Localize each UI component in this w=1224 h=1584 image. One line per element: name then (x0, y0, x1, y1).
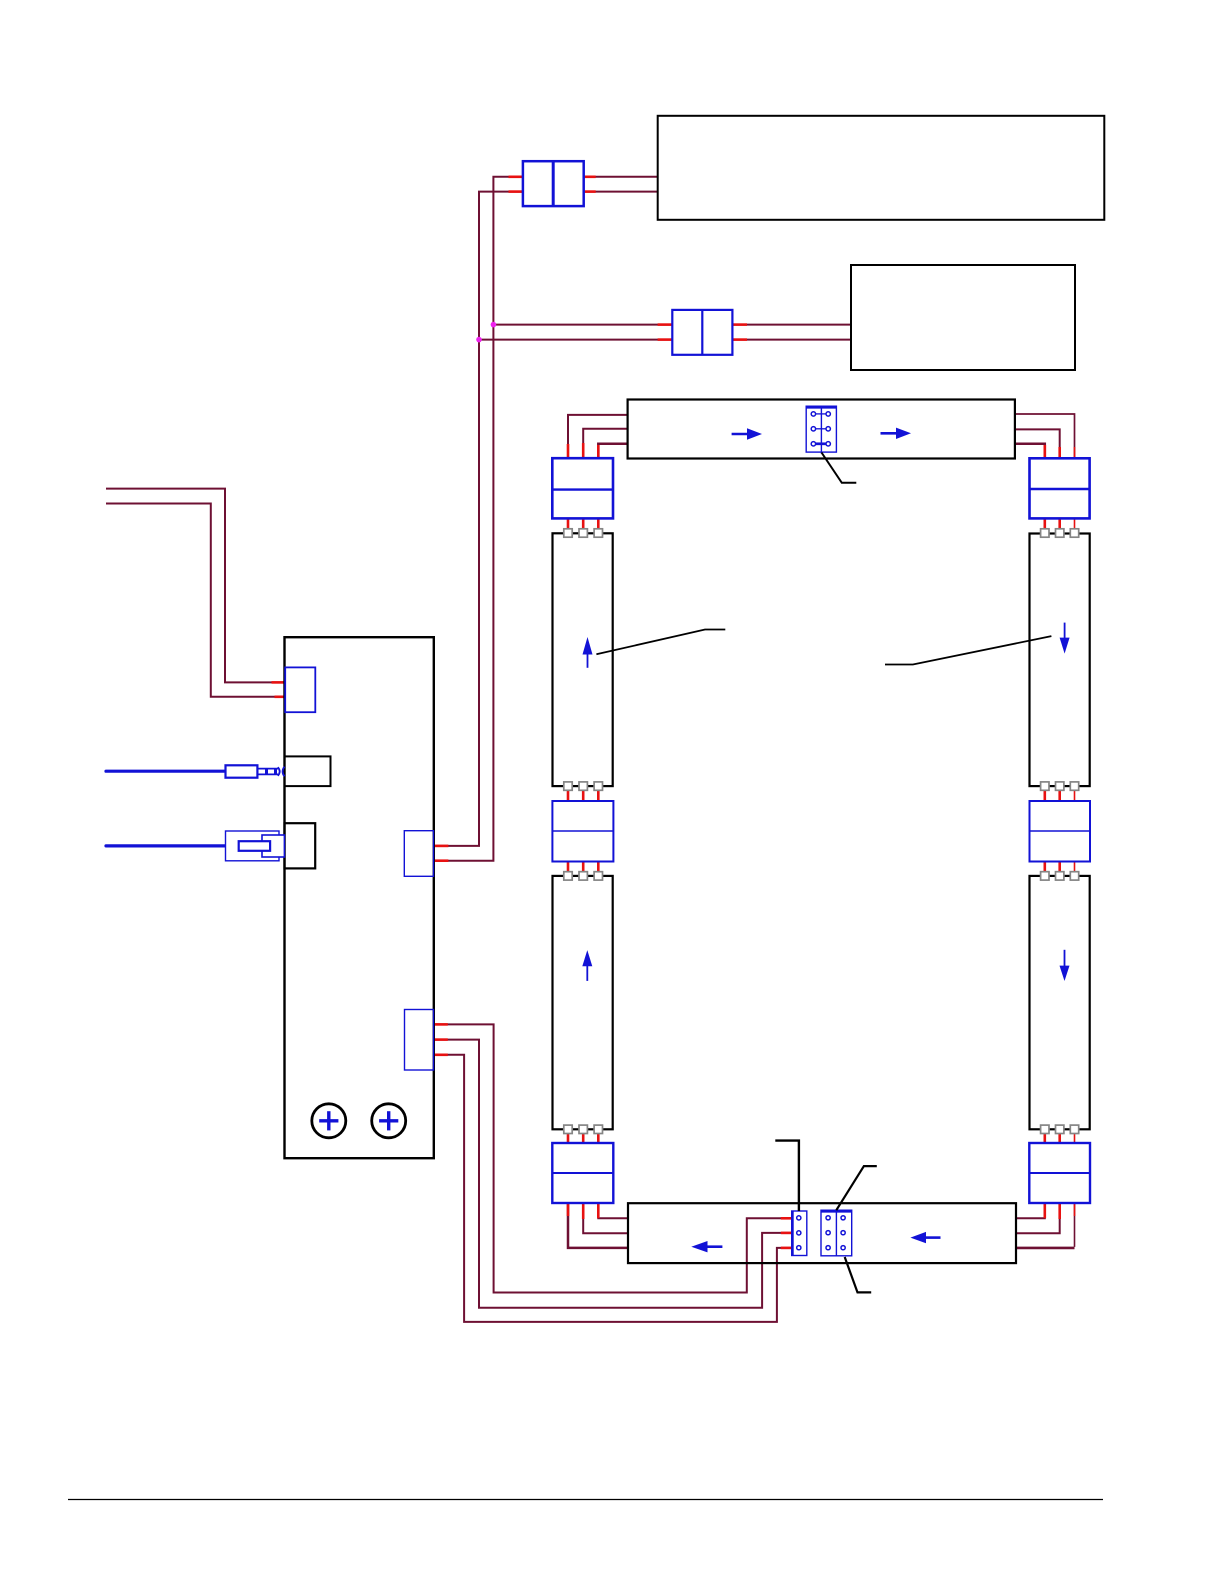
connector: controller input port (404, 831, 433, 877)
red stubs: left fixture1 bottom to mid connector (567, 786, 570, 801)
wire: riser B from connector J1 to controller input (maroon) (434, 192, 523, 846)
wire: left feed upper (maroon) (106, 489, 285, 683)
antenna 2 plug tab (262, 835, 284, 857)
red stub: TR corner top pin 3 (1074, 447, 1076, 458)
red stub: J2 left upper (658, 323, 673, 326)
screw terminal symbol 1 (circle-plus) (312, 1104, 346, 1138)
antenna 2 whip (106, 844, 226, 847)
wire: top-left corner lead 1 (568, 415, 628, 458)
corner connector TR (1030, 458, 1090, 518)
box: module (right) (851, 265, 1075, 370)
arrow: top fixture right 1 (732, 428, 762, 439)
wire: bottom-left corner lead 2 (583, 1203, 628, 1233)
red stub: strip input row 1 (781, 1217, 792, 1220)
wire: top-right corner lead 3 (1015, 444, 1045, 459)
box: controller (285, 637, 434, 1158)
fixture: right upper vertical (1030, 534, 1090, 787)
wire: controller output 1 to strip top (434, 1024, 792, 1292)
wire: top-right corner lead 1 (1015, 414, 1075, 458)
screw terminal symbol 2 (circle-plus) (372, 1104, 406, 1138)
wire: controller output 3 to strip bottom (434, 1055, 792, 1322)
connector J1 (inline 2-cell) (523, 161, 584, 206)
arrow: left fixture2 up (582, 950, 592, 981)
red stub: controller output 2 (434, 1038, 448, 1041)
mid connector right (1030, 801, 1091, 862)
red stubs: BR corner bottom pins (1044, 1203, 1047, 1218)
junction dot upper (491, 322, 497, 328)
wire: branch to connector J2 lower (479, 339, 672, 341)
red stubs: left fixture2 bottom to BL corner (567, 1129, 570, 1143)
red stubs: BL corner bottom pins (567, 1203, 570, 1216)
fixture: right lower vertical (1030, 876, 1090, 1129)
wire: J2 to module box upper (732, 324, 851, 326)
terminal squares: left fixture2 top (564, 872, 603, 880)
wire: J2 to module box lower (732, 339, 851, 341)
terminal squares: right fixture1 bottom (1041, 782, 1079, 790)
wire: left feed lower (maroon) (106, 504, 285, 697)
red stub: controller RF port upper (272, 681, 285, 684)
wire: top-left corner lead 3 (598, 444, 627, 459)
red stub: J2 left lower (658, 338, 673, 341)
red stub: controller output 3 (434, 1054, 448, 1057)
connector: controller output port (405, 1010, 434, 1071)
red stub: controller input lower (434, 859, 449, 862)
terminal squares: left fixture1 top (564, 529, 603, 537)
terminal squares: left fixture1 bottom (564, 782, 603, 790)
leader: TB3 top callout (836, 1166, 877, 1210)
fixture: bottom horizontal (628, 1203, 1016, 1263)
arrow: right fixture1 down (1060, 623, 1070, 654)
fixture: left upper vertical (553, 533, 613, 786)
red stub: strip input row 3 (781, 1247, 792, 1250)
wire: bottom-right corner lead 1 (1074, 1203, 1076, 1247)
red stubs: TL corner bottom pins (567, 518, 570, 533)
wire: bottom-left corner lead 1 (568, 1203, 628, 1248)
wire: controller output 2 to strip middle (434, 1040, 792, 1308)
leader: TB1 callout (822, 453, 857, 483)
red stub: J1 left lower (509, 190, 523, 193)
red stub: J2 right upper (732, 323, 747, 326)
wire: bottom-right corner lead 3 (1016, 1203, 1045, 1218)
box: receiver (top) (658, 116, 1105, 220)
antenna 2 plug inner (239, 841, 270, 851)
red stubs: TR corner bottom pins (1044, 518, 1047, 533)
red stub: controller RF port lower (275, 695, 285, 698)
terminal squares: left fixture2 bottom (564, 1125, 603, 1133)
red stubs: right fixture2 bottom to BR corner (1044, 1129, 1047, 1143)
red stub: J2 right lower (732, 338, 747, 341)
red stub: TL corner top pin 1 (567, 444, 570, 458)
fixture: left lower vertical (553, 876, 613, 1129)
mid connector left (552, 801, 613, 862)
antenna jack housing 1 (black) (285, 756, 331, 786)
corner connector BL (552, 1143, 613, 1203)
red stubs: right mid connector bottom to fixture2 top (1044, 862, 1047, 877)
arrow: left fixture1 up (583, 637, 593, 668)
terminal strip TB2 (bottom fixture, single column) (792, 1211, 807, 1256)
terminal block TB1 (top fixture) (806, 406, 836, 453)
connector: controller RF port (top-left inside box) (285, 667, 315, 712)
antenna jack housing 2 (black) (285, 823, 316, 868)
corner connector TL (552, 458, 613, 518)
arrow: right fixture2 down (1060, 950, 1070, 981)
red stubs: right fixture1 bottom to mid connector (1044, 786, 1047, 801)
wire: bottom-left corner lead 3 (598, 1203, 628, 1218)
red stub: strip input row 2 (781, 1232, 792, 1235)
fixture: top horizontal (628, 400, 1015, 459)
terminal squares: right fixture2 top (1041, 872, 1079, 880)
wire: bottom-right corner lead 2 (1016, 1203, 1060, 1233)
leader: strip callout (775, 1141, 799, 1211)
arrow: top fixture right 2 (881, 428, 912, 439)
red stub: J1 right lower (584, 190, 596, 193)
leader: left up-arrow callout (596, 630, 725, 655)
antenna 1 whip (106, 770, 226, 773)
antenna 1 plug tip (257, 767, 284, 777)
connector J2 (inline 2-cell) (672, 310, 732, 355)
arrow: bottom fixture left 2 (910, 1232, 940, 1243)
red stub: TL corner top pin 3 (597, 445, 600, 458)
wire: riser A from connector J1 to controller input (maroon) (434, 177, 523, 861)
terminal squares: right fixture1 top (1041, 529, 1079, 537)
wire: top-right corner lead 2 (1015, 429, 1060, 458)
red stub: TL corner top pin 2 (582, 443, 585, 458)
antenna 2 plug outline (226, 831, 280, 861)
wire: J1 to receiver box lower (584, 191, 658, 193)
wire: J1 to receiver box upper (584, 176, 658, 178)
footer rule (68, 1499, 1103, 1501)
corner connector BR (1029, 1143, 1090, 1203)
junction dot lower (476, 337, 482, 343)
terminal block TB3 (bottom fixture, 6 pin) (821, 1210, 852, 1256)
red stubs: left mid connector bottom to fixture2 top (567, 862, 570, 877)
wire: top-left corner lead 2 (583, 429, 627, 458)
red stub: J1 right upper (584, 176, 596, 179)
red stub: TR corner top pin 1 (1044, 445, 1047, 458)
arrow: bottom fixture left 1 (691, 1241, 722, 1252)
wire: branch to connector J2 upper (493, 324, 672, 326)
red stub: controller input upper (434, 845, 449, 848)
antenna 1 plug body (226, 765, 258, 777)
red stub: J1 left upper (509, 176, 523, 179)
leader: right down-arrow callout (885, 636, 1051, 664)
red stub: controller output 1 (434, 1023, 448, 1026)
leader: TB3 bottom callout (845, 1257, 872, 1292)
red stub: TR corner top pin 2 (1058, 447, 1061, 458)
terminal squares: right fixture2 bottom (1041, 1125, 1079, 1133)
